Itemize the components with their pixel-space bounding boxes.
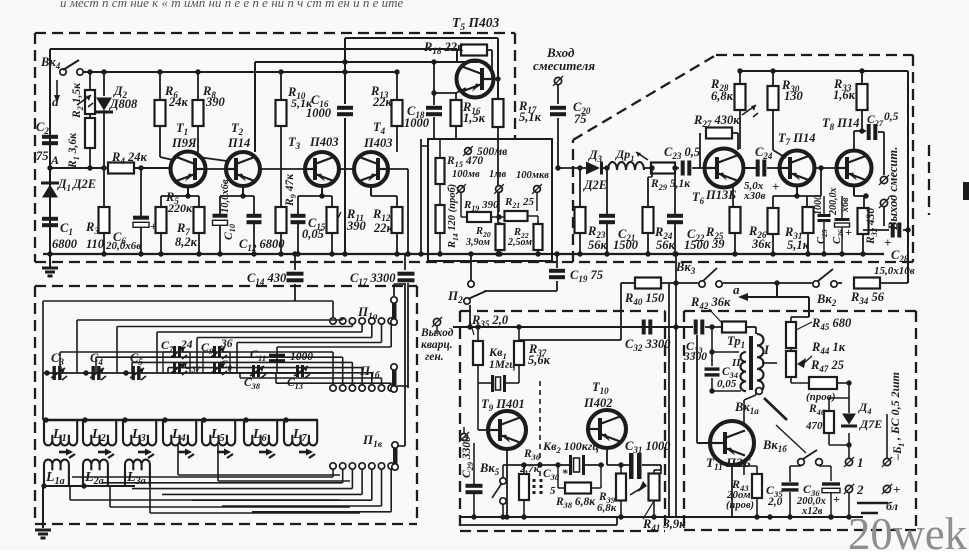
svg-text:смесителя: смесителя [533, 58, 595, 73]
svg-text:П403: П403 [363, 136, 392, 150]
svg-text:Д808: Д808 [109, 97, 138, 111]
svg-text:3300: 3300 [683, 351, 707, 363]
svg-text:1: 1 [896, 443, 906, 447]
svg-text:R1 3,6к: R1 3,6к [67, 132, 81, 169]
svg-text:1мв: 1мв [489, 169, 506, 180]
svg-text:(пров): (пров) [806, 391, 835, 403]
svg-text:R15 470: R15 470 [446, 155, 483, 169]
svg-text:П402: П402 [583, 396, 612, 410]
svg-text:1000: 1000 [306, 106, 332, 120]
svg-text:75: 75 [574, 112, 587, 126]
svg-text:Т8 П14: Т8 П14 [822, 116, 860, 132]
svg-text:56к: 56к [588, 238, 608, 252]
svg-text:6800: 6800 [52, 237, 78, 251]
svg-text:5,1к: 5,1к [519, 110, 542, 124]
svg-text:15,0х10в: 15,0х10в [874, 265, 915, 277]
svg-text:200,0х: 200,0х [828, 188, 839, 217]
svg-text:х6в: х6в [840, 197, 851, 213]
svg-text:Д2Е: Д2Е [72, 177, 96, 191]
svg-text:+: + [845, 225, 852, 239]
svg-text:С32 3300: С32 3300 [625, 337, 671, 353]
svg-text:2,0: 2,0 [767, 496, 783, 508]
svg-text:С12 6800: С12 6800 [239, 237, 285, 253]
svg-text:R44 1к: R44 1к [811, 340, 846, 356]
svg-text:5,1к: 5,1к [787, 238, 810, 252]
svg-text:20,0x6в: 20,0x6в [105, 240, 141, 252]
svg-text:470: 470 [805, 420, 823, 432]
svg-text:2,7к: 2,7к [519, 463, 540, 475]
svg-text:П14: П14 [227, 136, 250, 150]
svg-text:39: 39 [711, 237, 725, 251]
svg-text:0,05: 0,05 [717, 378, 737, 390]
svg-text:3,9ом: 3,9ом [465, 237, 490, 248]
svg-text:75: 75 [36, 149, 49, 163]
svg-text:1500: 1500 [613, 238, 639, 252]
svg-text:х30в: х30в [743, 190, 766, 202]
svg-text:R40 150: R40 150 [624, 291, 665, 307]
svg-text:С23 0,5: С23 0,5 [664, 145, 700, 161]
svg-text:и мест п ст ние к « т и: и мест п ст ние к « т имп ни п е е п е н… [60, 0, 404, 10]
svg-text:R27 430к: R27 430к [693, 113, 740, 129]
svg-text:6,8к: 6,8к [597, 502, 617, 514]
svg-text:36: 36 [220, 338, 233, 350]
svg-text:R34 56: R34 56 [850, 290, 885, 306]
svg-text:1000: 1000 [813, 195, 824, 215]
svg-text:1,6к: 1,6к [833, 88, 856, 102]
svg-text:2: 2 [856, 482, 864, 497]
svg-text:Т9 П401: Т9 П401 [481, 397, 525, 413]
svg-text:С17 3300: С17 3300 [350, 271, 396, 287]
svg-text:5,6к: 5,6к [528, 353, 551, 367]
svg-text:390: 390 [346, 219, 367, 233]
svg-text:390: 390 [205, 95, 226, 109]
svg-text:С19 75: С19 75 [570, 268, 603, 284]
svg-text:220к: 220к [167, 201, 193, 215]
svg-text:1Мгц: 1Мгц [489, 359, 516, 371]
svg-text:R45 680: R45 680 [811, 316, 852, 332]
svg-text:, БС 0,5 2шт: , БС 0,5 2шт [888, 372, 902, 441]
svg-text:2,5ом: 2,5ом [507, 237, 532, 248]
svg-text:0,5: 0,5 [884, 111, 899, 123]
svg-text:–Б: –Б [890, 446, 904, 461]
svg-text:100мкв: 100мкв [516, 170, 549, 181]
svg-text:1: 1 [857, 455, 864, 470]
svg-text:20wek: 20wek [848, 508, 967, 551]
svg-text:8,2к: 8,2к [175, 235, 198, 249]
svg-text:6,8к: 6,8к [711, 89, 734, 103]
svg-text:II: II [731, 357, 741, 369]
svg-text:24: 24 [180, 339, 193, 351]
svg-text:R9 47к: R9 47к [284, 173, 298, 207]
svg-text:R2 1,5к: R2 1,5к [71, 82, 85, 119]
svg-text:П9Я: П9Я [171, 136, 197, 150]
svg-text:R4 24к: R4 24к [111, 150, 147, 166]
svg-text:а: а [733, 282, 740, 297]
svg-text:1500: 1500 [684, 238, 710, 252]
svg-text:А: А [50, 153, 59, 167]
svg-text:36к: 36к [751, 237, 772, 251]
svg-text:х12в: х12в [801, 506, 823, 517]
svg-text:Выход смесит.: Выход смесит. [886, 147, 900, 231]
svg-text:П13Б: П13Б [705, 188, 736, 202]
svg-text:+: + [833, 492, 840, 506]
svg-text:С31 1000: С31 1000 [625, 439, 671, 455]
svg-text:П403: П403 [309, 135, 338, 149]
svg-text:1,5к: 1,5к [463, 111, 486, 125]
svg-text:+: + [772, 179, 779, 194]
svg-text:(пров): (пров) [726, 500, 754, 511]
svg-text:1000: 1000 [290, 351, 313, 363]
svg-text:R41 3,9к: R41 3,9к [642, 517, 686, 533]
svg-text:100мв: 100мв [452, 169, 480, 180]
svg-text:1000: 1000 [404, 116, 430, 130]
svg-text:R38 6,8к: R38 6,8к [555, 496, 596, 510]
svg-text:а: а [52, 94, 59, 109]
svg-text:24к: 24к [168, 95, 189, 109]
svg-text:ген.: ген. [425, 351, 444, 363]
svg-text:Д2Е: Д2Е [583, 178, 607, 192]
svg-text:22к: 22к [373, 221, 394, 235]
svg-text:R42 36к: R42 36к [690, 295, 731, 311]
svg-text:R18 22к: R18 22к [423, 40, 464, 56]
svg-text:R32 430: R32 430 [865, 208, 879, 245]
svg-text:130: 130 [784, 89, 804, 103]
svg-text:R19 390: R19 390 [463, 199, 499, 213]
svg-text:кварц.: кварц. [421, 339, 453, 351]
svg-text:Д7Е: Д7Е [859, 417, 882, 431]
svg-text:10,0x6в: 10,0x6в [220, 179, 231, 213]
svg-text:+: + [893, 482, 900, 497]
svg-text:110: 110 [86, 237, 105, 251]
svg-text:R35 2,0: R35 2,0 [471, 313, 509, 329]
svg-text:56к: 56к [656, 238, 676, 252]
svg-text:I: I [763, 342, 770, 357]
svg-text:Выход: Выход [420, 327, 454, 339]
svg-text:R29 5,1к: R29 5,1к [650, 178, 691, 192]
svg-text:С29 3300: С29 3300 [461, 436, 475, 478]
svg-text:Кв2 100кгц: Кв2 100кгц [542, 439, 599, 455]
svg-text:22к: 22к [372, 95, 393, 109]
svg-text:0,05: 0,05 [302, 227, 324, 241]
svg-text:Т7 П14: Т7 П14 [778, 131, 816, 147]
svg-text:С14 430: С14 430 [247, 271, 287, 287]
